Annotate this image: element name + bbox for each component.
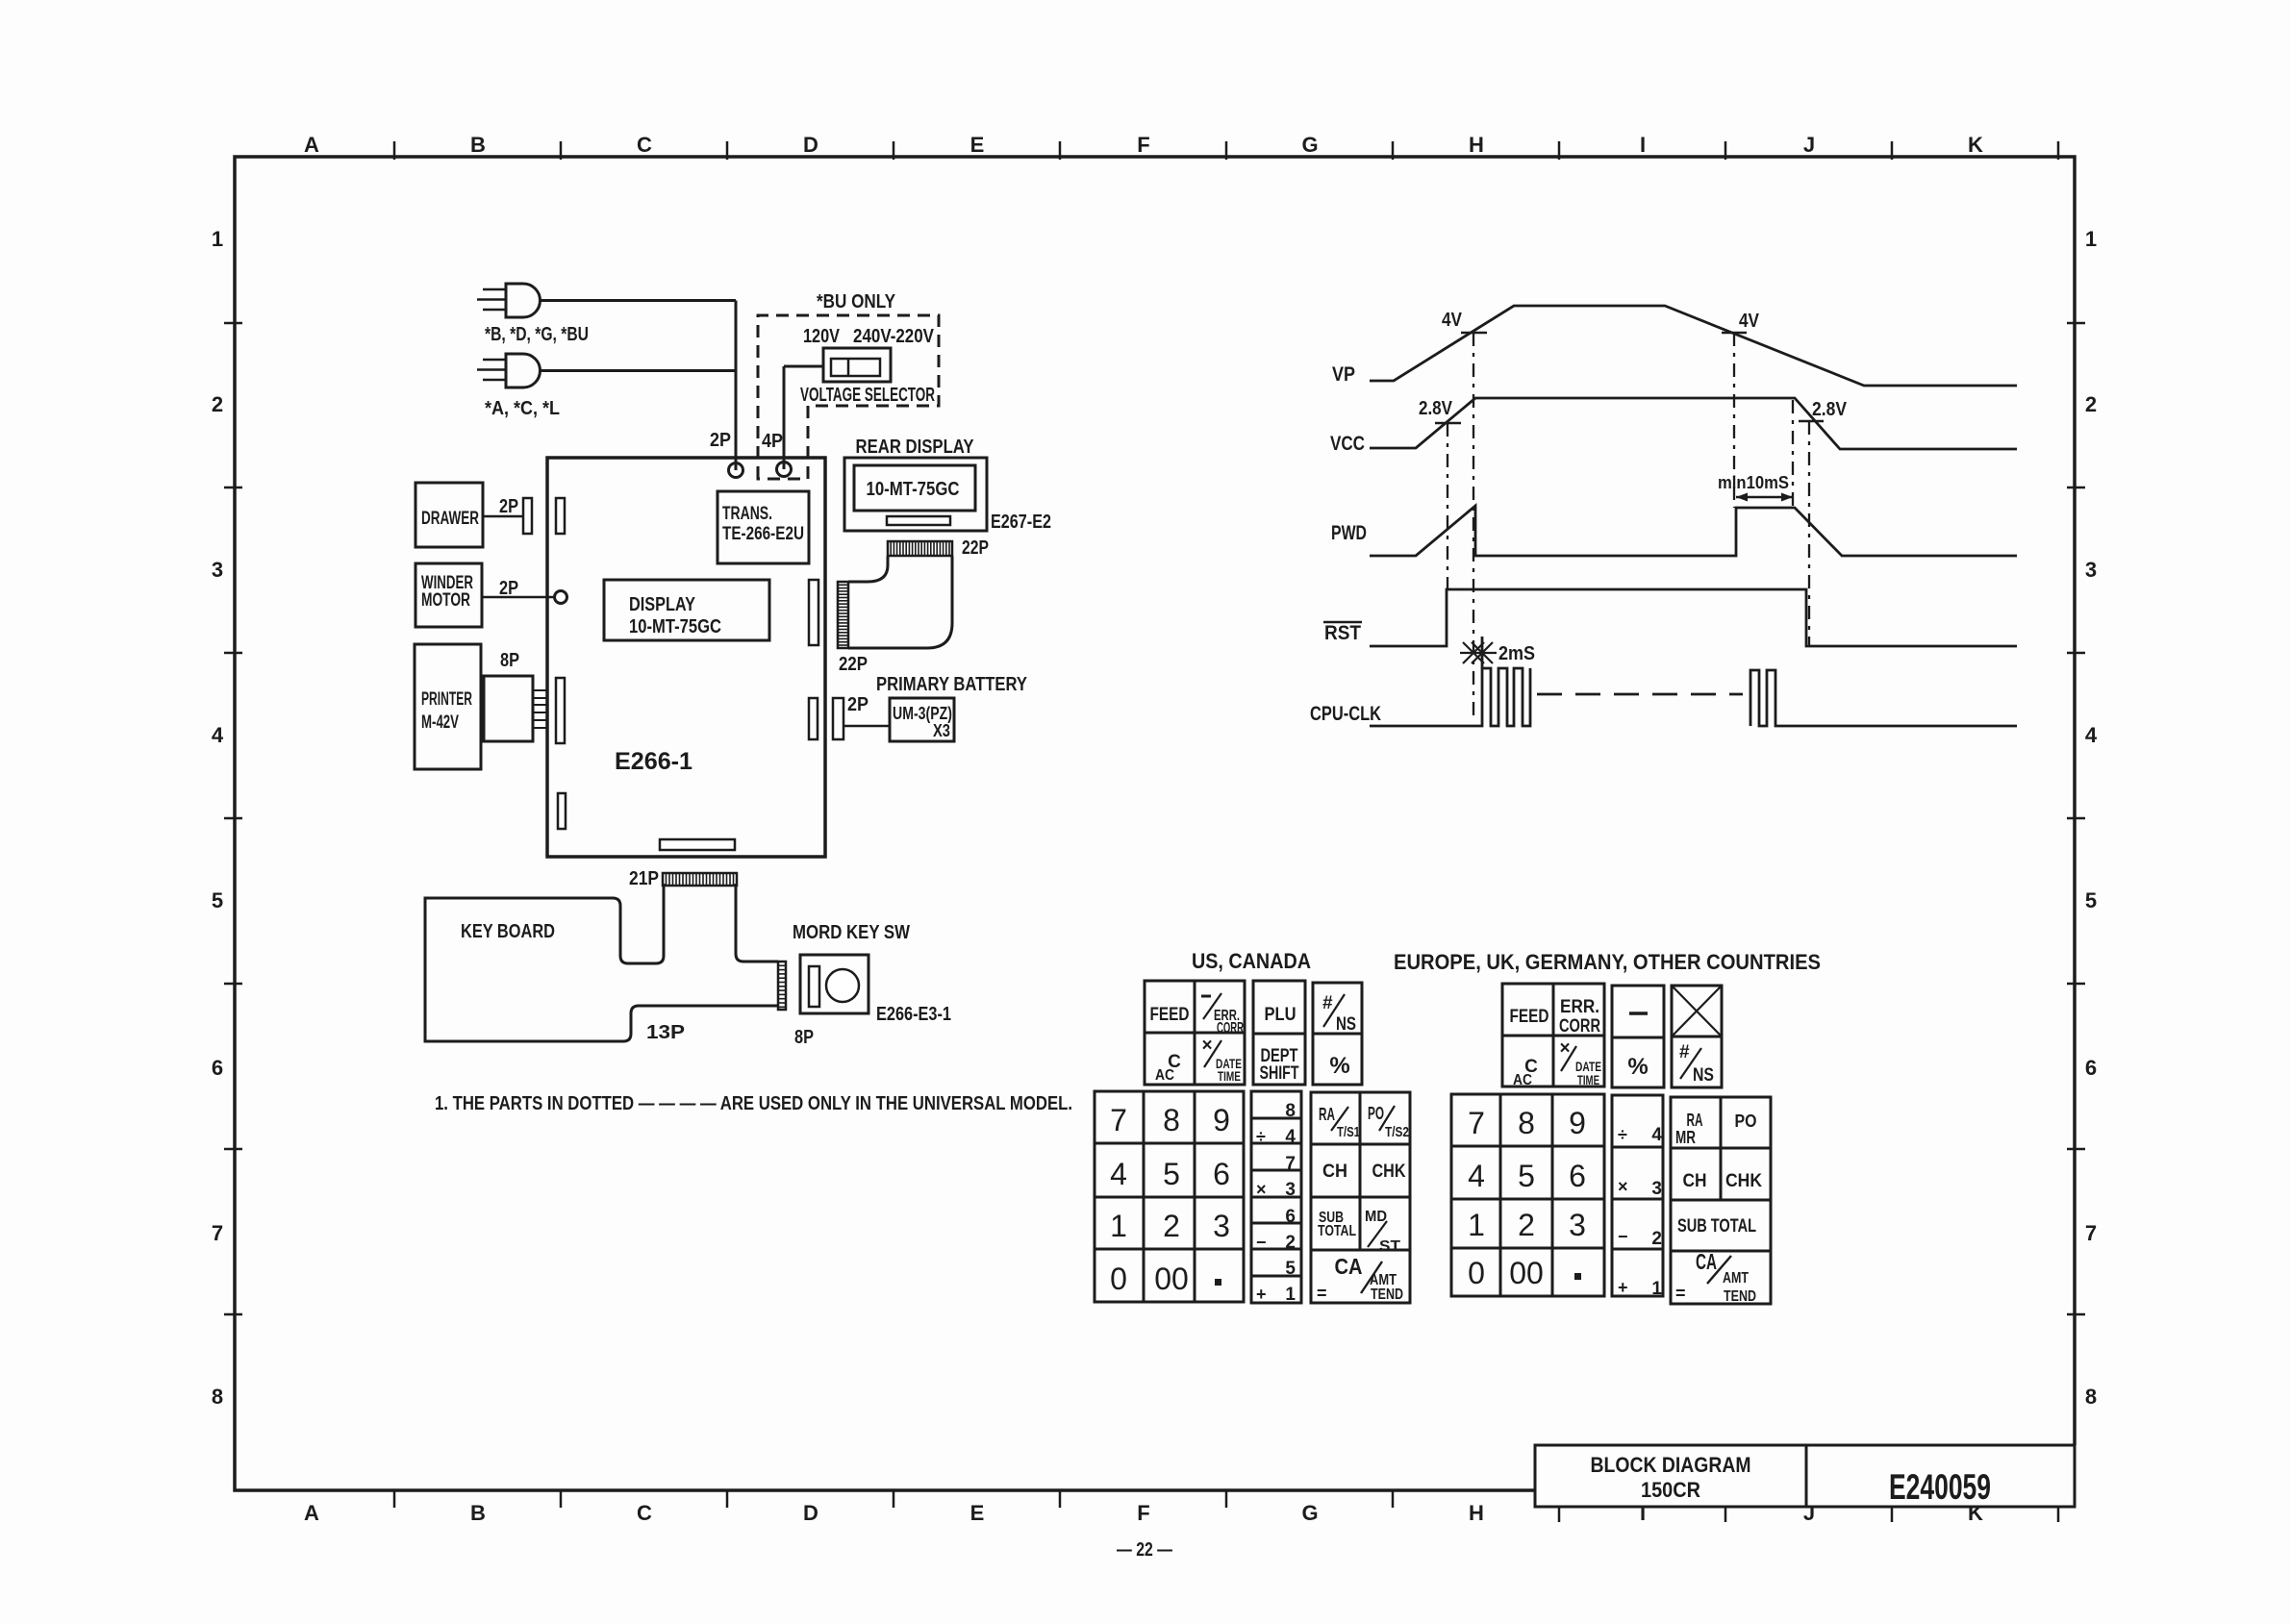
svg-text:13P: 13P [646,1022,685,1043]
svg-text:240V-220V: 240V-220V [853,326,935,347]
svg-text:−: − [1618,1227,1628,1246]
svg-text:E266-1: E266-1 [615,748,692,775]
svg-text:5: 5 [1285,1259,1296,1279]
svg-text:AC: AC [1155,1067,1174,1084]
svg-text:×: × [1618,1177,1628,1196]
svg-text:E266-E3-1: E266-E3-1 [876,1004,951,1025]
svg-text:REAR DISPLAY: REAR DISPLAY [856,437,975,458]
svg-text:8: 8 [1518,1106,1535,1140]
svg-text:1: 1 [212,227,223,251]
svg-text:*B, *D, *G, *BU: *B, *D, *G, *BU [485,324,589,345]
svg-text:21P: 21P [629,868,659,889]
svg-text:3: 3 [1285,1180,1296,1200]
svg-text:7: 7 [212,1221,223,1245]
svg-text:AMT: AMT [1723,1270,1749,1287]
svg-text:CA: CA [1335,1254,1363,1279]
svg-text:4: 4 [212,723,224,747]
svg-text:I: I [1640,133,1646,157]
svg-text:G: G [1301,133,1318,157]
svg-text:1. THE PARTS IN DOTTED — — — —: 1. THE PARTS IN DOTTED — — — — ARE USED … [435,1093,1072,1114]
svg-text:F: F [1137,1501,1149,1525]
svg-text:RA: RA [1687,1111,1703,1130]
svg-text:7: 7 [2085,1221,2097,1245]
svg-text:3: 3 [1213,1209,1230,1243]
svg-text:VCC: VCC [1330,433,1365,455]
svg-text:F: F [1137,133,1149,157]
svg-text:CH: CH [1683,1171,1707,1191]
svg-text:MORD KEY SW: MORD KEY SW [793,922,910,943]
svg-text:8P: 8P [794,1027,814,1048]
svg-text:7: 7 [1110,1103,1127,1137]
svg-text:00: 00 [1509,1256,1544,1290]
svg-text:J: J [1803,133,1815,157]
svg-text:D: D [803,1501,818,1525]
svg-text:CHK: CHK [1725,1171,1762,1191]
svg-text:B: B [470,1501,486,1525]
svg-text:TEND: TEND [1371,1287,1403,1303]
svg-text:2: 2 [1518,1208,1535,1242]
svg-text:6: 6 [1213,1157,1230,1191]
svg-text:7: 7 [1468,1106,1485,1140]
svg-text:+: + [1256,1285,1267,1304]
svg-text:DRAWER: DRAWER [421,509,479,529]
svg-text:4P: 4P [762,431,783,452]
svg-text:DISPLAY: DISPLAY [629,594,696,615]
svg-text:=: = [1675,1284,1686,1303]
svg-text:5: 5 [2085,888,2097,912]
svg-text:2: 2 [212,392,223,416]
svg-text:6: 6 [1569,1159,1586,1193]
svg-text:00: 00 [1154,1262,1189,1296]
svg-text:=: = [1317,1284,1327,1303]
svg-text:RST: RST [1324,622,1361,644]
svg-text:NS: NS [1693,1065,1714,1086]
svg-text:3: 3 [1569,1208,1586,1242]
svg-text:*BU ONLY: *BU ONLY [817,291,896,312]
svg-text:10-MT-75GC: 10-MT-75GC [629,616,721,637]
svg-text:4: 4 [1285,1127,1296,1147]
svg-text:%: % [1329,1053,1349,1079]
svg-text:E240059: E240059 [1889,1467,1991,1507]
svg-text:CORR: CORR [1217,1020,1244,1037]
svg-text:22P: 22P [962,537,989,559]
svg-text:+: + [1618,1278,1628,1297]
svg-text:5: 5 [1518,1159,1535,1193]
svg-text:AC: AC [1513,1072,1532,1088]
svg-text:H: H [1469,1501,1484,1525]
svg-text:150CR: 150CR [1641,1478,1700,1502]
svg-text:TIME: TIME [1218,1068,1241,1084]
svg-text:#: # [1322,993,1333,1013]
svg-text:RA: RA [1319,1105,1335,1124]
svg-text:A: A [304,133,319,157]
svg-text:D: D [803,133,818,157]
svg-text:H: H [1469,133,1484,157]
svg-text:E267-E2: E267-E2 [991,512,1051,533]
svg-text:TIME: TIME [1577,1072,1599,1087]
svg-text:2: 2 [2085,392,2097,416]
svg-text:9: 9 [1213,1103,1230,1137]
svg-text:1: 1 [1651,1279,1662,1299]
svg-text:4: 4 [1468,1159,1485,1193]
svg-text:CHK: CHK [1372,1162,1406,1182]
svg-text:E: E [970,1501,985,1525]
svg-text:÷: ÷ [1256,1127,1266,1146]
svg-text:1: 1 [2085,227,2097,251]
svg-text:T/S1: T/S1 [1337,1124,1360,1140]
svg-text:8P: 8P [500,650,519,671]
svg-text:VP: VP [1332,363,1355,386]
svg-text:VOLTAGE SELECTOR: VOLTAGE SELECTOR [800,385,935,406]
svg-text:— 22 —: — 22 — [1117,1539,1172,1561]
svg-text:B: B [470,133,486,157]
svg-text:6: 6 [2085,1056,2097,1080]
svg-text:2: 2 [1651,1229,1662,1249]
svg-text:US, CANADA: US, CANADA [1192,949,1311,973]
svg-text:*A, *C, *L: *A, *C, *L [485,398,560,419]
svg-text:#: # [1679,1042,1690,1062]
svg-text:BLOCK DIAGRAM: BLOCK DIAGRAM [1591,1453,1751,1477]
svg-text:MR: MR [1675,1128,1696,1147]
svg-text:G: G [1301,1501,1318,1525]
svg-text:×: × [1256,1180,1267,1199]
svg-text:K: K [1968,133,1983,157]
svg-text:2: 2 [1163,1209,1180,1243]
svg-text:CPU-CLK: CPU-CLK [1310,703,1381,725]
svg-text:TOTAL: TOTAL [1318,1223,1356,1239]
svg-text:4V: 4V [1739,311,1760,332]
svg-text:2mS: 2mS [1498,643,1535,664]
svg-text:0: 0 [1110,1262,1127,1296]
svg-text:3: 3 [212,558,223,582]
svg-text:÷: ÷ [1618,1125,1627,1144]
svg-text:9: 9 [1569,1106,1586,1140]
svg-text:3: 3 [1651,1179,1662,1199]
svg-text:I: I [1640,1501,1646,1525]
svg-text:×: × [1559,1038,1570,1059]
svg-text:J: J [1803,1501,1815,1525]
svg-text:FEED: FEED [1150,1005,1190,1025]
svg-text:4: 4 [1110,1157,1127,1191]
svg-text:SUB TOTAL: SUB TOTAL [1677,1216,1756,1237]
svg-text:2P: 2P [499,496,518,517]
svg-text:UM-3(PZ): UM-3(PZ) [893,704,952,723]
svg-text:8: 8 [2085,1385,2097,1409]
svg-text:PRIMARY BATTERY: PRIMARY BATTERY [876,674,1028,695]
svg-text:5: 5 [1163,1157,1180,1191]
svg-text:4: 4 [1651,1125,1662,1145]
svg-text:M-42V: M-42V [421,712,459,733]
svg-text:PO: PO [1735,1112,1757,1131]
svg-text:2: 2 [1285,1233,1296,1253]
svg-text:CA: CA [1696,1249,1717,1274]
svg-text:1: 1 [1110,1209,1127,1243]
svg-text:2.8V: 2.8V [1812,399,1848,420]
svg-text:2P: 2P [847,694,869,715]
svg-text:8: 8 [212,1385,223,1409]
svg-text:A: A [304,1501,319,1525]
svg-text:TEND: TEND [1724,1288,1756,1305]
svg-text:0: 0 [1468,1256,1485,1290]
svg-text:120V: 120V [803,326,841,347]
svg-text:NS: NS [1336,1014,1356,1035]
svg-text:4V: 4V [1442,310,1463,331]
svg-text:FEED: FEED [1510,1007,1549,1027]
svg-text:C: C [637,133,652,157]
svg-text:TE-266-E2U: TE-266-E2U [722,524,804,544]
svg-text:MOTOR: MOTOR [421,590,470,611]
svg-text:−: − [1256,1233,1267,1252]
svg-text:7: 7 [1285,1154,1296,1174]
svg-text:MD: MD [1365,1209,1387,1225]
svg-text:10-MT-75GC: 10-MT-75GC [867,479,960,500]
svg-text:PRINTER: PRINTER [421,689,472,710]
svg-text:X3: X3 [933,721,950,740]
svg-text:PO: PO [1368,1104,1384,1123]
svg-text:KEY BOARD: KEY BOARD [461,921,555,942]
svg-text:CH: CH [1322,1162,1347,1182]
svg-text:5: 5 [212,888,223,912]
svg-text:6: 6 [212,1056,223,1080]
svg-text:1: 1 [1468,1208,1485,1242]
svg-text:×: × [1201,1036,1212,1056]
svg-text:8: 8 [1163,1103,1180,1137]
svg-text:8: 8 [1285,1101,1296,1121]
svg-text:1: 1 [1285,1285,1296,1305]
svg-text:PWD: PWD [1331,522,1367,544]
svg-text:T/S2: T/S2 [1385,1124,1409,1140]
svg-text:C: C [637,1501,652,1525]
svg-text:TRANS.: TRANS. [722,504,772,524]
svg-text:22P: 22P [839,654,868,675]
svg-text:6: 6 [1285,1207,1296,1227]
svg-text:SHIFT: SHIFT [1260,1063,1299,1084]
svg-text:%: % [1627,1054,1648,1080]
svg-text:2P: 2P [499,578,518,599]
svg-text:E: E [970,133,985,157]
svg-text:4: 4 [2085,723,2098,747]
svg-text:2P: 2P [710,430,731,451]
svg-text:CORR: CORR [1559,1016,1600,1037]
svg-text:3: 3 [2085,558,2097,582]
svg-text:EUROPE, UK, GERMANY, OTHER COU: EUROPE, UK, GERMANY, OTHER COUNTRIES [1394,950,1821,974]
svg-text:PLU: PLU [1265,1005,1297,1025]
svg-text:ST: ST [1379,1238,1400,1255]
svg-text:2.8V: 2.8V [1419,398,1453,419]
svg-text:ERR.: ERR. [1560,997,1599,1017]
svg-text:min10mS: min10mS [1718,473,1789,492]
